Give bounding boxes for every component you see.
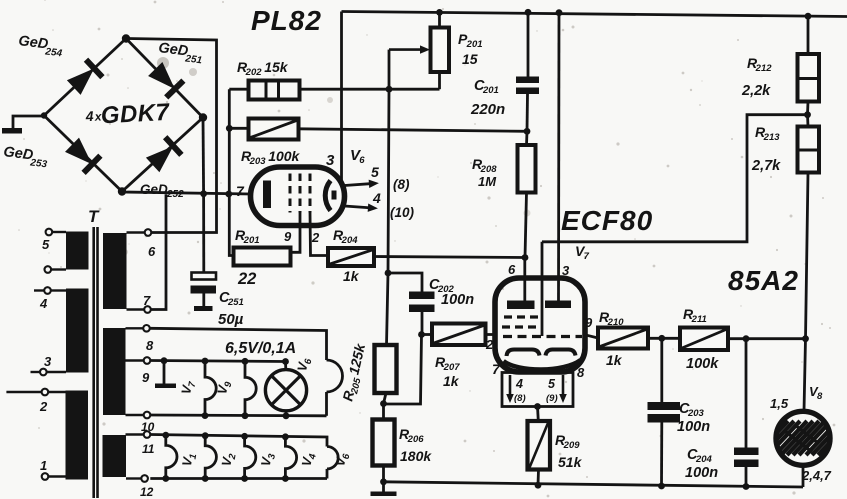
svg-text:206: 206 <box>407 434 425 445</box>
label V3 sec2 <box>258 451 278 468</box>
node P201 top <box>436 9 443 16</box>
wire R202 left lead <box>229 88 248 91</box>
svg-text:201: 201 <box>243 235 260 246</box>
svg-text:6: 6 <box>359 155 365 166</box>
heater V2 sec2 <box>202 432 209 439</box>
label R209 51k <box>555 432 580 451</box>
svg-text:2: 2 <box>311 230 320 245</box>
terminal 10 <box>126 414 144 416</box>
potentiometer P201 <box>438 12 441 27</box>
wire terminal 7 riser <box>151 194 166 309</box>
wire heater2 bottom (term 12) <box>150 477 327 480</box>
svg-text:7: 7 <box>236 183 245 199</box>
resistor R210 <box>598 328 648 349</box>
svg-text:15: 15 <box>462 51 478 67</box>
svg-text:9: 9 <box>585 315 593 330</box>
svg-text:1k: 1k <box>343 268 360 284</box>
label R207 1k <box>435 354 460 373</box>
heater2 V6 loop <box>327 447 338 469</box>
wire bridge right node down to output <box>202 118 205 194</box>
capacitor C251 <box>202 194 205 273</box>
diode GeD252 <box>146 146 173 172</box>
label R204 <box>333 227 358 246</box>
wire bottom rail <box>384 482 804 487</box>
wire heater bottom (term 10) <box>150 414 326 418</box>
wire R207 to ECF80 pin2 <box>486 333 496 336</box>
tube V7 ECF80 envelope <box>495 278 585 372</box>
node R206/bottom rail <box>380 478 387 485</box>
terminal 5 <box>52 231 66 233</box>
node R203/C201/R208 <box>524 128 531 135</box>
label GeD253 <box>2 144 49 170</box>
heater V3 sec2 <box>241 433 248 440</box>
svg-text:210: 210 <box>607 317 625 328</box>
svg-text:202: 202 <box>245 67 263 78</box>
svg-text:2,4,7: 2,4,7 <box>801 468 832 483</box>
wire R202 right to P201 bottom <box>300 88 440 91</box>
heater V6 loop <box>327 360 343 392</box>
svg-text:4: 4 <box>372 190 381 206</box>
svg-text:GeD: GeD <box>140 182 168 197</box>
svg-text:12: 12 <box>140 485 154 499</box>
svg-text:207: 207 <box>443 362 461 373</box>
tube V6 PL82 envelope <box>251 167 345 226</box>
resistor R209 <box>536 407 540 422</box>
label R201 <box>235 227 260 246</box>
label GeD251 <box>157 40 204 66</box>
label V6 <box>350 147 365 166</box>
svg-text:3: 3 <box>326 152 335 169</box>
label V8 <box>809 384 823 402</box>
wire heater top (term 8) <box>150 328 327 360</box>
wire heater2 top (term 11) <box>150 435 327 447</box>
label C203 100n <box>679 401 705 419</box>
label V6 loop1 <box>294 356 314 373</box>
ECF80 cathodes <box>507 350 540 357</box>
svg-text:203: 203 <box>687 408 705 419</box>
resistor R202 <box>249 81 300 100</box>
resistor R207 <box>432 324 486 346</box>
wire pin3 riser <box>556 9 563 16</box>
ECF80 heater arch <box>504 360 581 370</box>
svg-text:4: 4 <box>84 108 94 124</box>
svg-text:9: 9 <box>142 370 150 385</box>
svg-text:180k: 180k <box>400 448 432 464</box>
node bridge top feed / wire to terminal 6 <box>126 39 217 233</box>
heater V4 sec2 <box>282 433 289 440</box>
wire R204 right to ECF80 pin6 node <box>374 257 525 258</box>
svg-text:9: 9 <box>284 229 292 244</box>
wire heater mid (term 9) <box>150 361 285 362</box>
svg-text:212: 212 <box>755 63 773 74</box>
svg-text:251: 251 <box>227 297 244 308</box>
svg-text:251: 251 <box>184 53 203 66</box>
label V9 heater <box>214 379 234 396</box>
svg-text:211: 211 <box>691 314 707 325</box>
node C204 top <box>743 335 750 342</box>
node bridge top <box>122 34 130 42</box>
label R211 100k <box>683 306 707 325</box>
terminal 7 <box>127 308 145 310</box>
svg-text:8: 8 <box>817 391 823 402</box>
label C201 <box>474 78 499 96</box>
wire top HT rail <box>342 12 847 17</box>
heater V9 <box>242 358 249 365</box>
label V6 loop2 <box>332 451 352 468</box>
ECF80 grid dashes <box>504 315 538 318</box>
ECF80 pentode anode <box>545 301 571 309</box>
label R213 2,7k <box>755 124 780 143</box>
node heater gnd <box>161 357 168 364</box>
capacitor C204 <box>745 339 748 448</box>
label V4 sec2 <box>299 451 319 468</box>
resistor R203 <box>249 119 299 140</box>
wire pin9 to R210 <box>585 335 598 338</box>
svg-text:203: 203 <box>249 156 267 167</box>
terminal (unnumbered) <box>51 268 66 270</box>
svg-text:7: 7 <box>143 293 151 308</box>
label C251 <box>219 290 244 308</box>
resistor R201 <box>234 248 291 266</box>
node ECF80 pin6 <box>522 254 529 261</box>
lamp V6 <box>282 358 289 365</box>
node R211/85A2 <box>802 335 809 342</box>
label P201 15 <box>458 31 483 50</box>
node C202 branch <box>385 270 392 277</box>
svg-text:204: 204 <box>695 454 713 465</box>
svg-text:15k: 15k <box>264 59 289 75</box>
svg-text:6,5V/0,1A: 6,5V/0,1A <box>225 340 296 357</box>
secondary winding block 2 <box>103 328 126 415</box>
svg-text:252: 252 <box>166 189 184 200</box>
svg-text:51k: 51k <box>558 454 583 470</box>
node C203 bottom <box>658 483 665 490</box>
node R210/R211/C203 <box>658 335 665 342</box>
svg-text:4: 4 <box>39 296 48 311</box>
label R210 1k <box>599 309 624 328</box>
node C202/R207/R205 <box>418 331 425 338</box>
node R212/R213 <box>804 111 811 118</box>
svg-text:8: 8 <box>146 338 154 353</box>
terminal 11 <box>126 433 144 435</box>
wire 85A2 bottom <box>802 466 805 488</box>
node R-chain tap <box>225 191 232 198</box>
label R208 1M <box>472 156 497 175</box>
node R212 top <box>805 13 812 20</box>
svg-text:4: 4 <box>515 377 523 391</box>
wire R206 bottom <box>382 466 385 492</box>
resistor R213 <box>806 115 809 127</box>
wire screen riser into tube <box>541 242 544 336</box>
svg-text:T: T <box>88 207 100 226</box>
heater V1 sec2 <box>162 432 169 439</box>
svg-text:201: 201 <box>482 85 499 96</box>
svg-text:100n: 100n <box>677 419 710 435</box>
svg-text:22: 22 <box>237 270 256 288</box>
svg-text:6: 6 <box>148 244 156 259</box>
primary winding block 3 <box>66 391 89 480</box>
svg-text:3: 3 <box>44 354 52 369</box>
wire raw output rail (bridge bottom to PL82 pin 7) <box>122 192 251 194</box>
wire R213 bottom to 85A2 <box>804 173 808 412</box>
svg-text:(9): (9) <box>546 393 558 404</box>
diode GeD251 <box>148 62 175 89</box>
wire R212 bottom <box>806 102 809 115</box>
svg-text:PL82: PL82 <box>251 5 322 36</box>
resistor R205 <box>375 345 397 393</box>
label C202 <box>429 277 455 295</box>
svg-text:2,2k: 2,2k <box>741 83 771 99</box>
ground (heater) <box>163 361 166 384</box>
label GeD254 <box>17 33 64 59</box>
terminal 1 <box>48 475 65 477</box>
PL82 pin 2 lead <box>310 213 328 256</box>
svg-text:213: 213 <box>763 132 781 143</box>
node C204 bottom <box>743 483 750 490</box>
PL82 pin 4 heater arrow <box>344 202 378 213</box>
label R202 15k <box>237 59 289 78</box>
svg-text:100k: 100k <box>686 356 719 372</box>
svg-text:(8): (8) <box>514 393 526 404</box>
wire pin6 riser <box>523 258 526 302</box>
svg-text:1k: 1k <box>606 352 623 368</box>
transformer core <box>92 227 95 498</box>
primary winding block 1 <box>66 232 89 270</box>
node C201 top <box>525 9 532 16</box>
PL82 cathode bar <box>263 181 271 209</box>
PL82 grid dashes <box>289 174 292 213</box>
node R203 left <box>226 125 233 132</box>
heater V7 <box>202 358 209 365</box>
svg-text:1k: 1k <box>443 373 460 389</box>
svg-text:254: 254 <box>44 46 63 59</box>
resistor R204 <box>328 248 374 266</box>
wire R205-R206 link <box>384 393 387 420</box>
svg-text:5: 5 <box>42 237 50 252</box>
svg-text:100k: 100k <box>268 148 300 164</box>
svg-text:2,7k: 2,7k <box>751 158 781 174</box>
resistor R211 <box>680 328 728 351</box>
capacitor C203 <box>660 338 663 402</box>
svg-text:100n: 100n <box>685 465 718 481</box>
svg-text:(10): (10) <box>390 205 415 220</box>
node bridge left <box>41 112 47 118</box>
wire bridge lower-left diagonal <box>44 116 122 192</box>
wire R205 bypass riser <box>384 335 422 405</box>
label C204 100n <box>687 447 713 465</box>
svg-text:6: 6 <box>508 262 516 277</box>
label 4xGDK7 <box>84 99 171 130</box>
label R206 180k <box>399 426 424 445</box>
secondary winding block 1 <box>103 233 127 309</box>
label R212 2,2k <box>747 55 772 74</box>
svg-text:8: 8 <box>577 365 585 380</box>
wire R203 right to C201/R208 node <box>299 129 528 132</box>
svg-text:7: 7 <box>492 361 501 377</box>
secondary winding block 3 <box>103 435 127 477</box>
svg-text:5: 5 <box>548 377 556 391</box>
ground (bridge left node) <box>13 116 44 128</box>
diode GeD254 <box>67 68 94 95</box>
svg-text:11: 11 <box>142 442 155 456</box>
label V2 sec2 <box>218 451 238 468</box>
svg-text:GDK7: GDK7 <box>100 99 171 130</box>
svg-text:1M: 1M <box>478 174 497 189</box>
terminal 8 <box>126 327 144 329</box>
wire R203 left lead <box>229 127 248 130</box>
label R203 100k <box>241 148 301 167</box>
wire rail drop to PL82 pin 3 <box>340 12 343 182</box>
PL82 pin 5 heater arrow <box>344 179 379 190</box>
label V7 heater <box>178 379 198 396</box>
node C251 tap <box>200 190 207 197</box>
wire R210 right <box>648 337 680 340</box>
terminal 9 <box>126 359 144 361</box>
node P201 wiper tie <box>386 86 393 93</box>
node R205 bottom <box>380 400 387 407</box>
resistor R206 <box>373 420 395 466</box>
svg-text:ECF80: ECF80 <box>561 205 653 236</box>
PL82 anode arc <box>325 181 330 211</box>
svg-text:2: 2 <box>39 399 48 414</box>
PL82 pin 9 lead <box>291 213 301 253</box>
svg-text:50µ: 50µ <box>218 311 244 328</box>
wire bridge lower-right diagonal <box>122 118 203 192</box>
svg-text:5: 5 <box>371 164 379 180</box>
svg-text:(8): (8) <box>393 177 410 192</box>
resistor R208 <box>525 131 528 145</box>
svg-text:1: 1 <box>40 458 47 473</box>
node heater box bottom <box>534 403 541 410</box>
svg-text:201: 201 <box>466 39 483 50</box>
ground (R206) <box>371 492 397 497</box>
diode GeD253 <box>65 138 92 165</box>
svg-text:85A2: 85A2 <box>728 265 799 296</box>
ECF80 triode anode <box>507 301 535 310</box>
terminal 12 <box>126 477 141 479</box>
svg-text:1,5: 1,5 <box>770 396 789 411</box>
wire bridge upper-right diagonal <box>126 39 203 118</box>
primary winding block 2 <box>66 289 89 373</box>
wire bridge upper-left diagonal <box>44 39 126 116</box>
label V7 <box>575 243 590 262</box>
svg-text:100n: 100n <box>441 292 474 308</box>
label R205 125k <box>339 341 371 403</box>
wire screen feed <box>542 115 808 242</box>
terminal 6 <box>127 231 145 233</box>
svg-text:7: 7 <box>584 251 590 262</box>
capacitor C201 <box>527 12 530 76</box>
label V1 sec2 <box>179 452 199 468</box>
svg-text:220n: 220n <box>470 101 505 118</box>
capacitor C202 <box>388 273 422 292</box>
node bridge bottom <box>118 187 126 195</box>
svg-text:253: 253 <box>29 157 48 170</box>
wire sense line vertical <box>387 89 390 345</box>
terminal 2 <box>48 391 66 393</box>
wire C202 node to R207 <box>422 333 433 336</box>
svg-text:209: 209 <box>563 440 581 451</box>
resistor R212 <box>807 16 810 54</box>
node R209 bottom <box>535 482 542 489</box>
svg-text:204: 204 <box>341 235 359 246</box>
wire R211 right <box>728 337 806 340</box>
terminal 3 <box>47 371 67 373</box>
terminal 4 <box>51 289 66 291</box>
wire R-chain vertical <box>229 89 233 255</box>
node bridge right <box>199 113 207 121</box>
ECF80 heater box <box>502 373 573 407</box>
